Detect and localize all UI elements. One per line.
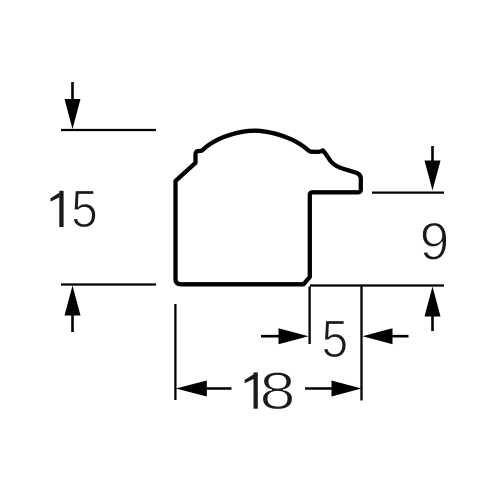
svg-text:5: 5	[322, 310, 349, 369]
svg-text:5: 5	[71, 180, 98, 239]
svg-text:8: 8	[260, 362, 296, 421]
svg-text:9: 9	[420, 213, 449, 272]
